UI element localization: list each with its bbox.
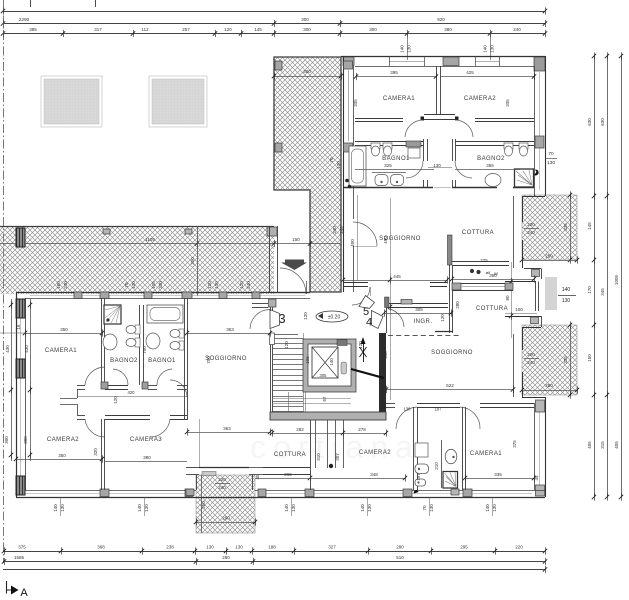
terrace dim 300 vertical xyxy=(197,226,199,296)
bagno lower right washer xyxy=(415,443,428,457)
ingr west wall xyxy=(386,307,388,333)
svg-text:80: 80 xyxy=(505,295,510,301)
bagno lower right wc bidet xyxy=(415,464,429,474)
svg-text:490: 490 xyxy=(383,236,388,244)
svg-text:327: 327 xyxy=(328,545,336,550)
svg-text:425: 425 xyxy=(466,70,474,75)
bagno lower right divider wall xyxy=(441,440,443,488)
bagni corridor dim 130 xyxy=(428,167,452,169)
bagno1 door arc xyxy=(406,161,423,178)
corridor duct below stairs xyxy=(315,420,317,468)
stair up arrow xyxy=(363,342,365,362)
north wall band mid apartment xyxy=(16,292,310,294)
svg-text:130: 130 xyxy=(429,504,434,512)
camera2 door arc xyxy=(455,120,473,137)
svg-text:187: 187 xyxy=(435,407,443,412)
svg-text:350: 350 xyxy=(58,453,66,458)
svg-text:180: 180 xyxy=(56,281,61,289)
svg-text:335: 335 xyxy=(505,99,510,107)
svg-text:240: 240 xyxy=(246,281,251,289)
elevator counterweight xyxy=(341,362,347,374)
svg-text:250: 250 xyxy=(545,383,553,388)
svg-text:238: 238 xyxy=(166,545,174,550)
svg-text:CAMERA1: CAMERA1 xyxy=(383,96,415,102)
hall left niche xyxy=(60,398,77,400)
south wall top apartment west part xyxy=(343,282,368,284)
svg-text:4: 4 xyxy=(366,317,372,329)
svg-text:130: 130 xyxy=(562,298,571,304)
terrace dim 300 in top balcony xyxy=(274,76,341,78)
svg-text:700: 700 xyxy=(206,356,211,364)
top dimension line 2 (2290/300/920) xyxy=(3,23,545,25)
svg-text:405: 405 xyxy=(587,441,592,449)
svg-text:240: 240 xyxy=(339,226,344,234)
level marker ellipse xyxy=(316,311,348,322)
svg-text:522: 522 xyxy=(446,383,454,388)
svg-text:240: 240 xyxy=(513,27,521,32)
svg-text:67: 67 xyxy=(322,396,327,402)
svg-text:260: 260 xyxy=(222,516,230,521)
svg-text:420: 420 xyxy=(128,390,136,395)
svg-text:CAMERA1: CAMERA1 xyxy=(45,348,77,354)
svg-text:335: 335 xyxy=(563,223,568,231)
svg-text:130: 130 xyxy=(206,545,214,550)
svg-text:120: 120 xyxy=(284,341,289,349)
rooflight square 1 xyxy=(41,76,102,127)
balcony door arc soggiorno xyxy=(353,222,377,246)
svg-text:375: 375 xyxy=(18,545,26,550)
entrance door arc xyxy=(280,268,306,294)
section marker A xyxy=(7,581,12,594)
east wall jog at y397 xyxy=(522,397,545,399)
svg-text:145: 145 xyxy=(587,222,592,230)
cottura counter edge xyxy=(199,419,201,467)
svg-text:325: 325 xyxy=(384,163,392,168)
top edge stub ticks xyxy=(30,0,32,7)
svg-text:130: 130 xyxy=(547,160,555,166)
svg-text:295: 295 xyxy=(460,545,468,550)
svg-text:CAMERA3: CAMERA3 xyxy=(130,437,162,443)
svg-text:100: 100 xyxy=(515,307,523,312)
bagno1 wc and bidet xyxy=(371,143,380,149)
west wall columns xyxy=(16,299,25,318)
svg-text:345: 345 xyxy=(600,288,605,296)
long dim line x390 xyxy=(390,198,392,400)
svg-text:220: 220 xyxy=(527,222,535,227)
east wall top apartment xyxy=(545,56,547,196)
svg-text:300: 300 xyxy=(303,69,311,74)
svg-text:380: 380 xyxy=(444,27,452,32)
long vertical wall ingr-cottura xyxy=(449,265,451,333)
stair direction diagonal xyxy=(351,369,384,378)
svg-text:375: 375 xyxy=(512,440,517,448)
south wall band xyxy=(16,497,545,499)
svg-text:240: 240 xyxy=(332,226,337,234)
svg-text:130: 130 xyxy=(60,504,65,512)
svg-text:120: 120 xyxy=(440,314,445,322)
bagno2 wc bidet xyxy=(135,325,140,334)
ingr dashed line xyxy=(388,335,459,337)
svg-text:130: 130 xyxy=(367,504,372,512)
east wall jog at y196 xyxy=(522,196,545,198)
stair hall top wall xyxy=(272,334,298,336)
elevator cabin xyxy=(312,347,338,378)
svg-text:1105: 1105 xyxy=(145,237,155,242)
east wall lower-middle section xyxy=(522,327,524,350)
svg-text:70: 70 xyxy=(329,157,334,163)
hall door arcs up xyxy=(85,367,105,385)
svg-text:300: 300 xyxy=(301,17,309,22)
svg-text:130: 130 xyxy=(404,407,412,412)
svg-text:140: 140 xyxy=(483,45,488,53)
svg-text:105: 105 xyxy=(151,281,156,289)
svg-text:140: 140 xyxy=(562,287,571,293)
svg-text:400: 400 xyxy=(350,239,355,247)
svg-text:150: 150 xyxy=(587,354,592,362)
svg-text:307: 307 xyxy=(335,453,340,461)
upper apartment entry door arc xyxy=(352,287,370,305)
svg-text:430: 430 xyxy=(5,345,10,353)
vent gray south xyxy=(451,489,459,495)
bagni south wall xyxy=(343,187,433,189)
window dim stub 140/130 right xyxy=(490,34,492,61)
bagno1 sink mid xyxy=(146,333,160,349)
soggiorno mid dims xyxy=(187,333,270,335)
wall camera1-bagno2 xyxy=(101,298,103,385)
ingr north wall xyxy=(386,303,448,305)
svg-text:BAGNO1: BAGNO1 xyxy=(382,156,410,162)
lower apartment north wall band east xyxy=(452,283,513,285)
svg-text:120: 120 xyxy=(207,281,212,289)
stair treads xyxy=(273,338,303,340)
svg-text:A: A xyxy=(20,587,28,599)
svg-text:240: 240 xyxy=(527,360,535,365)
svg-text:250: 250 xyxy=(201,501,206,509)
svg-text:368: 368 xyxy=(97,545,105,550)
ingr dims xyxy=(384,313,452,315)
camera1 mid dim 350 xyxy=(25,333,102,335)
svg-text:140: 140 xyxy=(360,504,365,512)
svg-text:2290: 2290 xyxy=(19,17,30,23)
svg-text:130: 130 xyxy=(490,45,495,53)
svg-text:120: 120 xyxy=(113,396,118,404)
svg-text:335: 335 xyxy=(494,472,502,477)
elevator shaft walls xyxy=(303,339,356,392)
right dim line 1 xyxy=(594,56,596,497)
wall cottura - camera2 lower xyxy=(310,420,312,490)
svg-text:275: 275 xyxy=(480,258,488,263)
top dimension line 1 xyxy=(3,11,545,13)
apt3 door leaf pentagon xyxy=(270,310,280,329)
cottura south wall mid xyxy=(199,467,249,469)
svg-text:1005: 1005 xyxy=(614,274,619,285)
svg-text:130: 130 xyxy=(407,45,412,53)
bagno1 twin sinks xyxy=(375,175,388,186)
camera2-camera3 wall xyxy=(101,419,103,490)
terrace dim line 1105 xyxy=(0,243,341,245)
balcony crosshatch right upper xyxy=(522,195,577,260)
svg-text:150: 150 xyxy=(292,237,300,242)
svg-text:300: 300 xyxy=(4,436,9,444)
svg-text:130: 130 xyxy=(291,504,296,512)
svg-text:130: 130 xyxy=(336,161,341,169)
bagno lower right sink xyxy=(445,449,457,463)
svg-text:130: 130 xyxy=(144,504,149,512)
bagno corridor walls xyxy=(423,139,425,161)
drain dots xyxy=(345,179,349,183)
445 dim xyxy=(343,280,447,282)
svg-text:BAGNO1: BAGNO1 xyxy=(148,358,176,364)
svg-text:280: 280 xyxy=(455,301,460,309)
svg-text:348: 348 xyxy=(370,472,378,477)
north wall band top apartment xyxy=(341,56,545,58)
wall bagno2-bagno1 xyxy=(139,305,141,385)
svg-text:265: 265 xyxy=(284,472,292,477)
gray window marker 140/130 right xyxy=(545,277,557,310)
svg-text:385: 385 xyxy=(29,27,37,32)
niche dims xyxy=(511,262,513,338)
bottom dim line 2 xyxy=(3,561,545,563)
svg-text:282: 282 xyxy=(296,427,304,432)
svg-text:380: 380 xyxy=(143,455,151,460)
svg-text:140: 140 xyxy=(400,45,405,53)
svg-text:700: 700 xyxy=(142,346,147,354)
svg-text:70: 70 xyxy=(548,151,554,157)
corridor-bagni wall xyxy=(355,141,424,143)
svg-text:INGR.: INGR. xyxy=(414,319,433,325)
stair bottom gray wall xyxy=(270,412,386,420)
svg-text:240: 240 xyxy=(527,230,535,235)
svg-text:140: 140 xyxy=(485,504,490,512)
bagno1 wc bidet mid xyxy=(179,329,184,338)
camera3 south dims xyxy=(16,459,102,461)
svg-text:70: 70 xyxy=(422,505,427,511)
svg-text:CAMERA2: CAMERA2 xyxy=(47,437,79,443)
svg-text:120: 120 xyxy=(303,312,308,320)
camera1 door arc xyxy=(405,120,423,137)
svg-text:188: 188 xyxy=(268,545,276,550)
camera2 lower door arc xyxy=(396,407,417,429)
west wall band xyxy=(16,292,18,497)
bedroom north wall lower right xyxy=(386,403,395,405)
svg-text:197: 197 xyxy=(416,473,421,481)
bagno2 door arc xyxy=(455,161,472,178)
svg-text:210: 210 xyxy=(434,462,439,470)
svg-text:430: 430 xyxy=(24,345,29,353)
svg-text:445: 445 xyxy=(393,274,401,279)
svg-text:45: 45 xyxy=(255,474,260,480)
282-278 dim line xyxy=(272,433,386,435)
west wall top apartment xyxy=(343,56,345,292)
balcony crosshatch bottom bump xyxy=(196,475,255,533)
svg-text:130: 130 xyxy=(235,545,243,550)
wall stub above dashes xyxy=(435,331,453,333)
svg-text:220: 220 xyxy=(515,545,523,550)
door jamb marks corridor xyxy=(421,117,425,121)
right dim line 3 xyxy=(621,56,623,497)
entrance walkway arrow xyxy=(285,260,304,263)
svg-text:1585: 1585 xyxy=(14,555,25,560)
left dim line a xyxy=(11,299,13,461)
svg-text:120: 120 xyxy=(358,341,363,349)
svg-text:257: 257 xyxy=(182,27,190,32)
stair landing lines xyxy=(272,398,351,400)
bagno2 wc and bidet xyxy=(504,143,513,149)
bagno2 sink xyxy=(485,174,501,187)
bottom dim line 1 xyxy=(3,551,545,553)
svg-text:140: 140 xyxy=(284,504,289,512)
svg-text:120: 120 xyxy=(239,281,244,289)
svg-text:CAMERA1: CAMERA1 xyxy=(470,451,502,457)
522 dim xyxy=(386,389,513,391)
balcony piers top-right xyxy=(275,61,282,70)
svg-text:330: 330 xyxy=(158,281,163,289)
svg-text:130: 130 xyxy=(131,281,136,289)
bagno2 sink xyxy=(103,334,117,350)
svg-text:120: 120 xyxy=(224,27,232,32)
bagno1 bathtub mid xyxy=(147,305,183,323)
bagni dims xyxy=(355,169,434,171)
rooflight square 2 xyxy=(149,76,207,127)
apt3 entry door arc xyxy=(250,310,270,330)
svg-text:105: 105 xyxy=(305,356,310,364)
svg-text:405: 405 xyxy=(614,441,619,449)
svg-text:COTTURA: COTTURA xyxy=(462,230,494,236)
entrance walkway west wall xyxy=(269,226,271,292)
svg-text:140: 140 xyxy=(329,358,334,366)
svg-text:BAGNO2: BAGNO2 xyxy=(477,156,505,162)
265 dim xyxy=(255,478,310,480)
svg-text:315: 315 xyxy=(600,441,605,449)
east wall bottom apartment xyxy=(545,397,547,497)
stair right dark wall xyxy=(379,333,386,420)
left dim line b xyxy=(30,299,32,461)
svg-text:CAMERA2: CAMERA2 xyxy=(464,96,496,102)
gas meter dots xyxy=(470,269,474,273)
bagno1 bathtub xyxy=(349,146,366,186)
svg-text:240: 240 xyxy=(218,485,226,490)
camera1 lower door arc xyxy=(460,407,480,429)
apt3 door jamb xyxy=(270,333,275,345)
svg-text:317: 317 xyxy=(94,27,102,32)
hall bottom wall xyxy=(77,415,85,417)
svg-text:350: 350 xyxy=(489,273,497,278)
cottura south wall xyxy=(452,261,509,263)
terrace column xyxy=(16,228,25,247)
svg-text:305: 305 xyxy=(320,373,328,378)
wall under camere (corridor north) xyxy=(355,118,403,120)
svg-text:395: 395 xyxy=(390,70,398,75)
svg-text:CAMERA2: CAMERA2 xyxy=(359,450,391,456)
svg-text:335: 335 xyxy=(563,356,568,364)
terrace crosshatch long strip xyxy=(0,226,274,294)
svg-text:45: 45 xyxy=(534,475,539,481)
svg-text:305: 305 xyxy=(415,307,423,312)
svg-text:SOGGIORNO: SOGGIORNO xyxy=(205,356,247,362)
bagno1 washer xyxy=(406,141,421,147)
svg-text:130: 130 xyxy=(433,163,441,168)
window dim stub 140/130 left xyxy=(407,34,409,61)
stair hall left wall xyxy=(270,333,272,420)
west wall balcony door lines xyxy=(353,246,355,292)
svg-text:310: 310 xyxy=(316,453,321,461)
bottom dim line 3 xyxy=(3,569,545,571)
right dim line 2 xyxy=(607,56,609,497)
svg-text:SOGGIORNO: SOGGIORNO xyxy=(431,350,473,356)
black dot south wall xyxy=(414,490,419,493)
soggiorno-cottura divider xyxy=(448,235,453,265)
door leaf pentagon apt5 xyxy=(359,296,375,309)
svg-text:BAGNO2: BAGNO2 xyxy=(110,358,138,364)
door leaf pentagon apt4 xyxy=(372,311,384,329)
elevator door xyxy=(337,340,347,346)
svg-text:220: 220 xyxy=(527,352,535,357)
svg-text:140: 140 xyxy=(53,504,58,512)
wall camera1-camera2 divider xyxy=(436,66,438,114)
svg-text:140: 140 xyxy=(137,504,142,512)
svg-text:220: 220 xyxy=(218,477,226,482)
terrace pier at entrance xyxy=(267,227,277,236)
svg-text:240: 240 xyxy=(63,281,68,289)
bagno lower right shower xyxy=(443,472,458,489)
svg-text:130: 130 xyxy=(214,281,219,289)
svg-text:920: 920 xyxy=(437,17,445,22)
svg-text:335: 335 xyxy=(353,99,358,107)
svg-text:112: 112 xyxy=(141,27,149,32)
svg-text:278: 278 xyxy=(358,427,366,432)
entrance south wall xyxy=(274,292,310,294)
svg-text:±0.20: ±0.20 xyxy=(328,315,341,321)
bagno walls lower right xyxy=(413,407,415,490)
camera dims xyxy=(356,76,436,78)
top dimension line 3 (385/317/112/257/120/145/300/300/380/240) xyxy=(3,33,545,35)
svg-text:630: 630 xyxy=(600,118,605,126)
svg-text:510: 510 xyxy=(396,555,404,560)
svg-text:363: 363 xyxy=(223,426,231,431)
terrace vents xyxy=(103,229,110,234)
terrace crosshatch top-right L xyxy=(274,57,341,292)
hall top wall xyxy=(77,385,85,387)
ingr door arc xyxy=(389,309,404,327)
left boundary dash-dot line xyxy=(3,0,5,563)
hall door arcs down xyxy=(85,419,105,437)
cottura balcony door leaf xyxy=(202,472,216,476)
svg-text:300: 300 xyxy=(303,27,311,32)
svg-text:280: 280 xyxy=(396,545,404,550)
svg-text:250: 250 xyxy=(545,254,553,259)
soggiorno top apt vertical dim xyxy=(357,195,359,280)
svg-text:145: 145 xyxy=(254,27,262,32)
350 dim east xyxy=(452,279,534,281)
svg-text:70: 70 xyxy=(124,282,129,288)
bagno2 shower xyxy=(515,169,534,187)
svg-text:260: 260 xyxy=(222,555,230,560)
svg-text:630: 630 xyxy=(587,118,592,126)
soggiorno door arc right xyxy=(170,380,187,397)
svg-text:350: 350 xyxy=(60,327,68,332)
east wall middle section xyxy=(522,196,524,222)
svg-text:363: 363 xyxy=(226,327,234,332)
svg-text:355: 355 xyxy=(486,163,494,168)
svg-text:300: 300 xyxy=(190,257,195,265)
svg-text:COTTURA: COTTURA xyxy=(476,306,508,312)
svg-text:COTTURA: COTTURA xyxy=(274,452,306,458)
stair north small walls xyxy=(252,303,268,305)
svg-text:300: 300 xyxy=(369,27,377,32)
wall bagno1-soggiorno xyxy=(184,298,186,420)
cottura alcove east niche xyxy=(524,268,541,270)
svg-text:170: 170 xyxy=(587,286,592,294)
